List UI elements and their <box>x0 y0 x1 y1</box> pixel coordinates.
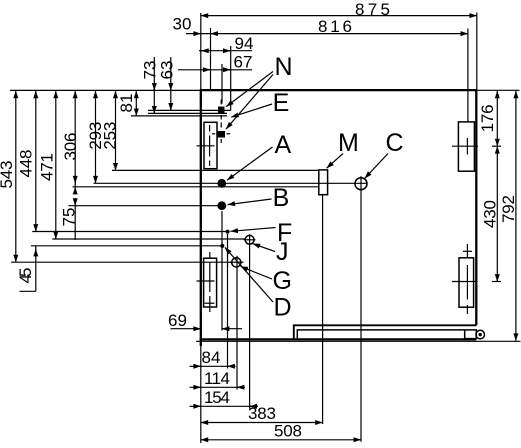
extension column right edge top <box>476 13 478 90</box>
extension column x=468 (816 / hinge axis) <box>467 29 469 122</box>
svg-text:253: 253 <box>101 122 120 150</box>
left dim 448 <box>35 91 37 232</box>
svg-text:63: 63 <box>158 61 177 80</box>
square N1 centreline dashes <box>220 100 222 105</box>
right dim 176 <box>496 91 498 146</box>
column G x=237 (114) <box>236 268 238 390</box>
dim 67 <box>178 69 252 71</box>
N leader 1 <box>226 72 273 107</box>
A leader <box>227 147 273 180</box>
machine bottom edge <box>200 338 477 340</box>
dim 816 / 30 shared line <box>186 33 468 35</box>
svg-text:E: E <box>273 89 290 117</box>
dim 84 <box>190 365 236 367</box>
dim 383 <box>201 422 323 424</box>
hinge plate lower <box>459 258 474 307</box>
dim 94 <box>199 50 252 52</box>
slot centreline <box>209 252 211 259</box>
svg-text:875: 875 <box>355 0 390 19</box>
svg-text:154: 154 <box>204 388 230 407</box>
N leader 2 <box>226 75 273 130</box>
63 feature line (square N1 centre row) <box>148 109 231 111</box>
left dim 543 <box>15 91 17 262</box>
point G <box>232 258 241 267</box>
machine body outline <box>201 90 477 346</box>
svg-text:M: M <box>338 129 359 157</box>
column J x=249.6 (154) <box>249 245 251 409</box>
svg-text:383: 383 <box>248 404 276 423</box>
left dim 306 <box>74 91 76 187</box>
F leader <box>231 228 276 232</box>
square N1 <box>218 107 225 114</box>
slot lower cross <box>205 302 215 304</box>
81 feature line <box>131 115 227 117</box>
svg-text:45: 45 <box>16 268 35 284</box>
column F x=227.5 (84) <box>227 234 229 369</box>
svg-text:543: 543 <box>0 161 16 189</box>
pocket centreline <box>209 125 211 132</box>
top edge left thin extension <box>10 89 201 91</box>
svg-text:792: 792 <box>499 195 518 223</box>
slot centre cross <box>197 280 215 282</box>
svg-text:84: 84 <box>202 348 221 367</box>
feature row line 543 (G row) <box>11 261 232 263</box>
hinge1 axis dashes <box>452 145 478 147</box>
column x=201 lower <box>200 346 202 443</box>
dim 45 <box>35 249 37 257</box>
square N2 <box>218 131 226 138</box>
C extension column <box>360 176 362 442</box>
plinth inner line <box>297 330 464 339</box>
feature row line 293 (A / M / C centreline) <box>94 182 368 184</box>
left dim 293 <box>95 91 97 184</box>
square N2 centreline dashes <box>220 123 222 128</box>
feature row line 471 (J row) <box>52 238 245 240</box>
point F <box>226 230 230 234</box>
svg-text:114: 114 <box>204 369 230 388</box>
point J <box>245 235 254 244</box>
pocket centre cross <box>197 145 215 147</box>
svg-text:D: D <box>274 294 292 322</box>
hinge plate upper <box>458 122 474 171</box>
M leader <box>327 154 343 169</box>
J leader <box>253 244 275 252</box>
svg-text:508: 508 <box>274 421 302 440</box>
svg-text:94: 94 <box>235 34 254 53</box>
dim 63 vertical <box>170 57 172 110</box>
extension column x=222 top (67 line to square N1) <box>221 64 223 104</box>
mounting bar <box>202 169 319 171</box>
svg-text:816: 816 <box>318 17 352 36</box>
point A <box>217 179 226 188</box>
feature row line B <box>69 205 227 207</box>
feature row line 306 (bar bottom extension) <box>73 186 202 188</box>
M extension column <box>322 195 324 424</box>
svg-text:81: 81 <box>117 94 136 113</box>
left dim 471 <box>55 91 57 239</box>
svg-text:430: 430 <box>481 200 500 228</box>
73 feature line <box>148 112 227 114</box>
svg-text:A: A <box>275 131 292 159</box>
D leader <box>225 247 273 302</box>
extension column left edge top <box>200 13 202 89</box>
column x=222 (69) <box>221 211 223 331</box>
lower slot pocket <box>204 258 217 307</box>
dim 75 <box>74 176 76 183</box>
right dim 792 <box>515 91 517 341</box>
svg-text:67: 67 <box>234 53 253 72</box>
svg-text:C: C <box>386 129 404 157</box>
dim 154 <box>190 405 259 407</box>
svg-text:69: 69 <box>168 311 187 330</box>
point D <box>220 244 224 248</box>
plinth outer top <box>294 325 477 339</box>
point C <box>355 178 367 190</box>
dim 73 vertical <box>153 57 155 113</box>
dim 114 <box>190 386 246 388</box>
feature row line 448 (F row) <box>32 231 225 233</box>
point B <box>217 201 226 210</box>
dim 875 <box>201 15 477 17</box>
B leader <box>228 199 272 205</box>
floor line <box>196 340 521 342</box>
extension column x=210.5 (30mm line) <box>210 28 212 89</box>
svg-text:J: J <box>276 238 289 266</box>
svg-text:75: 75 <box>60 208 79 227</box>
feature row line 253 (bar top extension) <box>112 169 202 171</box>
svg-text:G: G <box>273 267 292 295</box>
svg-text:B: B <box>273 184 290 212</box>
top edge right thin extension <box>476 89 520 91</box>
feature row line 45 (D row) <box>31 245 221 247</box>
C leader <box>365 154 388 179</box>
right dim 430 <box>496 146 498 281</box>
hinge2 axis dashes <box>452 281 478 283</box>
E leader <box>231 104 272 117</box>
dim 81 vertical <box>135 91 137 116</box>
svg-text:N: N <box>275 53 293 81</box>
dim 508 <box>201 439 361 441</box>
upper bracket pocket <box>204 122 217 168</box>
svg-text:306: 306 <box>61 133 80 161</box>
roller wheel <box>476 330 485 339</box>
bracket M <box>319 170 328 195</box>
left dim 253 <box>115 91 117 171</box>
G leader <box>241 267 272 280</box>
svg-text:176: 176 <box>478 104 497 132</box>
svg-text:30: 30 <box>173 15 192 34</box>
dim 69 <box>171 328 201 330</box>
svg-text:448: 448 <box>16 150 35 178</box>
roller bracket <box>465 330 477 339</box>
extension column x=230.7 (94/67 line) <box>230 46 232 110</box>
svg-text:471: 471 <box>37 153 56 181</box>
